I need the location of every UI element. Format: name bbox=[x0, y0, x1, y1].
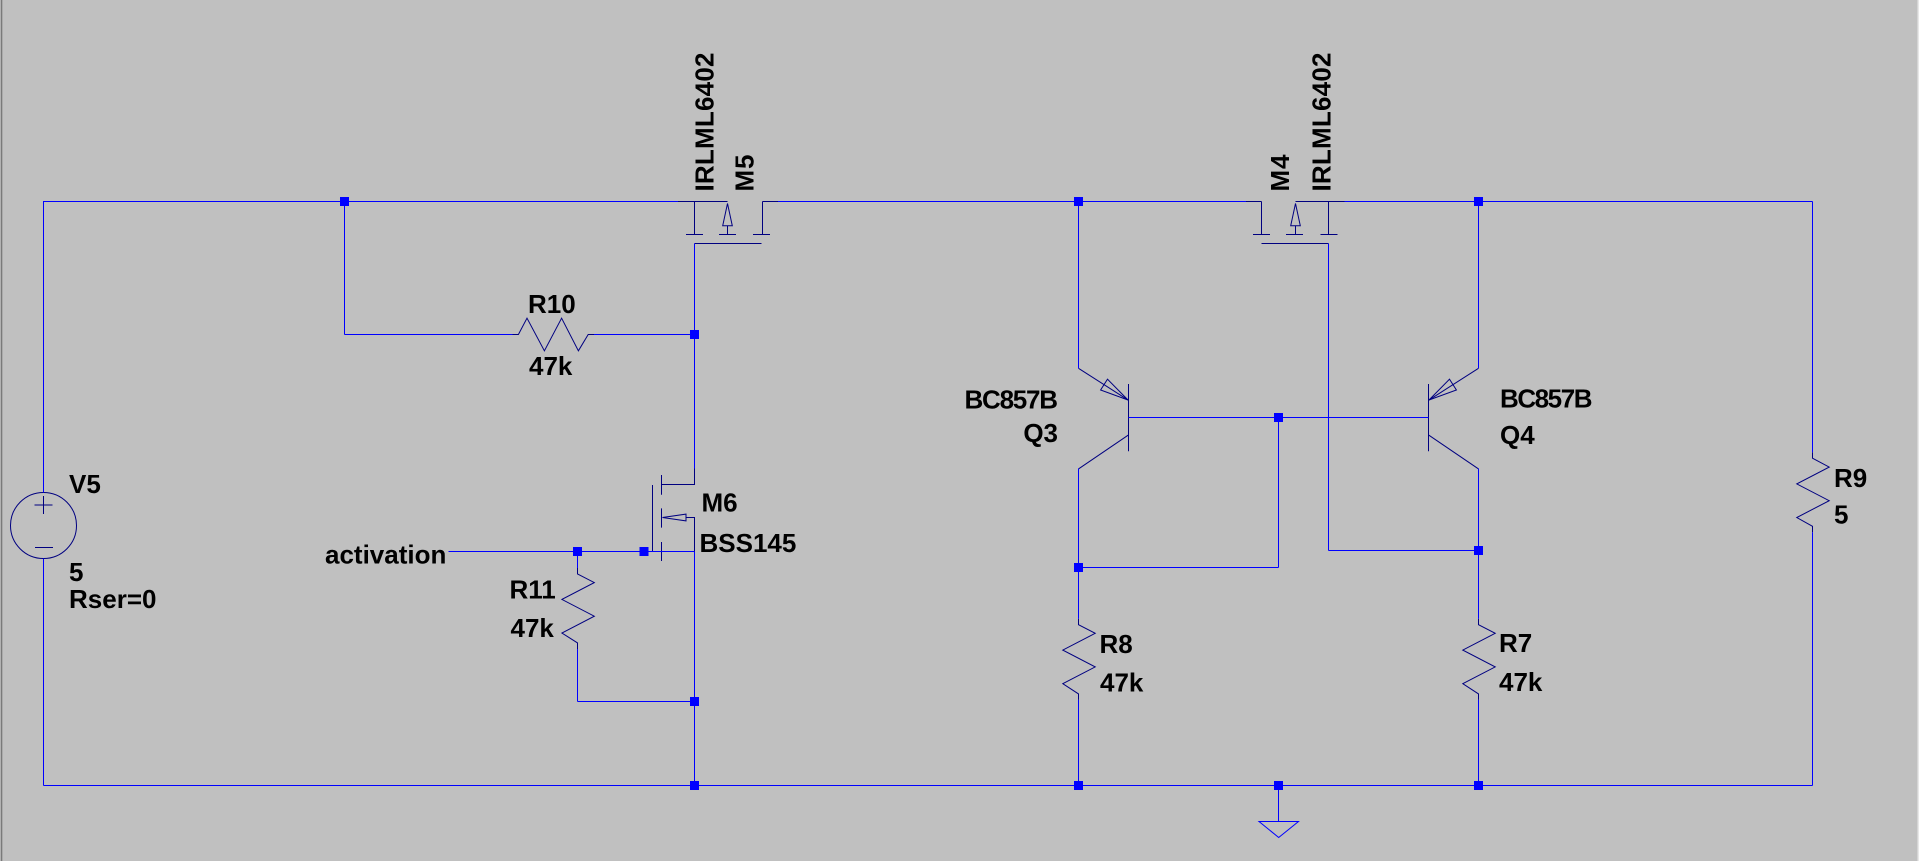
svg-text:Q3: Q3 bbox=[1023, 418, 1058, 448]
svg-text:R7: R7 bbox=[1499, 628, 1532, 658]
svg-text:Rser=0: Rser=0 bbox=[69, 584, 156, 614]
svg-text:5: 5 bbox=[69, 557, 83, 587]
svg-text:M5: M5 bbox=[730, 155, 760, 192]
svg-text:47k: 47k bbox=[529, 351, 573, 381]
svg-text:activation: activation bbox=[325, 540, 446, 570]
svg-text:IRLML6402: IRLML6402 bbox=[690, 53, 720, 192]
svg-text:R10: R10 bbox=[528, 289, 576, 319]
svg-text:R9: R9 bbox=[1834, 463, 1867, 493]
svg-text:M6: M6 bbox=[702, 488, 738, 518]
svg-text:47k: 47k bbox=[1499, 667, 1543, 697]
svg-text:47k: 47k bbox=[1100, 668, 1144, 698]
svg-text:V5: V5 bbox=[69, 469, 101, 499]
svg-text:5: 5 bbox=[1834, 500, 1848, 530]
svg-text:47k: 47k bbox=[511, 613, 555, 643]
svg-text:BSS145: BSS145 bbox=[700, 528, 797, 558]
svg-text:M4: M4 bbox=[1265, 154, 1295, 192]
svg-text:BC857B: BC857B bbox=[1500, 384, 1593, 414]
svg-text:IRLML6402: IRLML6402 bbox=[1307, 53, 1337, 192]
svg-text:R8: R8 bbox=[1100, 629, 1133, 659]
svg-text:Q4: Q4 bbox=[1500, 420, 1535, 450]
svg-text:R11: R11 bbox=[510, 575, 556, 605]
svg-text:BC857B: BC857B bbox=[965, 385, 1059, 415]
